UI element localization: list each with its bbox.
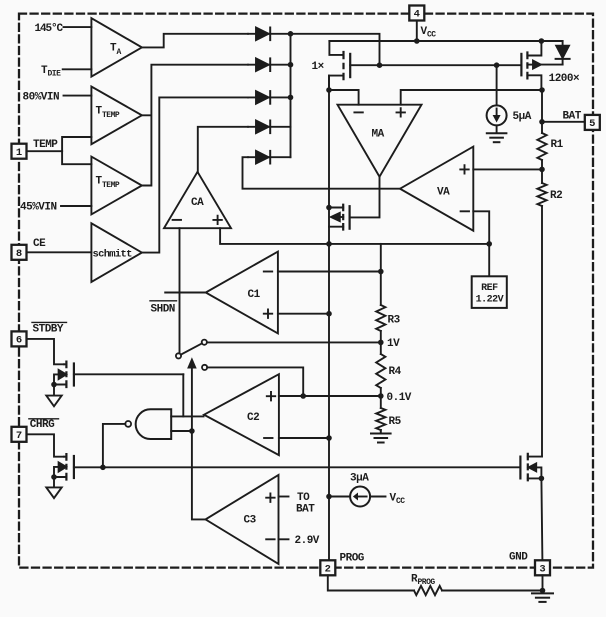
node MA minus 1x — [326, 87, 332, 93]
diode D3 — [248, 91, 291, 104]
svg-text:C2: C2 — [247, 412, 259, 424]
svg-text:45%VIN: 45%VIN — [20, 202, 57, 214]
svg-text:145°C: 145°C — [35, 23, 64, 35]
svg-text:1200×: 1200× — [549, 73, 580, 85]
svg-text:MA: MA — [372, 129, 385, 141]
wire CHRG gate line — [74, 466, 521, 468]
diode D1 — [248, 28, 291, 41]
pin 5 BAT — [563, 111, 600, 131]
wire NAND output to CHRG gate line — [103, 424, 125, 467]
svg-text:CC: CC — [427, 31, 436, 40]
transistor 1200x PMOS — [521, 41, 580, 90]
svg-text:TEMP: TEMP — [102, 111, 120, 120]
switch selector — [176, 340, 207, 370]
transistor 1x PMOS — [312, 41, 380, 90]
resistor R2 — [537, 183, 562, 206]
node VA plus R1R2 — [539, 167, 545, 173]
node 0.1V tap — [378, 392, 412, 404]
svg-text:TEMP: TEMP — [33, 139, 58, 151]
svg-text:R3: R3 — [388, 315, 401, 327]
svg-text:1: 1 — [16, 147, 22, 159]
wire C1 minus to ladder — [278, 271, 381, 273]
wire R3 to R4 — [380, 331, 382, 354]
node gate bus left — [377, 62, 383, 68]
wire 145C to TA — [64, 26, 92, 28]
node STDBY source bulk — [51, 382, 57, 388]
wire TDIE to TA — [63, 68, 92, 70]
label 145C — [35, 23, 64, 35]
block REF 1.22V — [472, 276, 507, 308]
svg-text:R1: R1 — [551, 139, 564, 151]
svg-text:3: 3 — [539, 563, 545, 575]
svg-text:5µA: 5µA — [513, 111, 532, 123]
svg-text:CHRG: CHRG — [30, 419, 55, 431]
ground STDBY — [46, 387, 61, 406]
svg-text:PROG: PROG — [418, 578, 436, 587]
svg-text:80%VIN: 80%VIN — [23, 92, 60, 104]
transistor CHRG NMOS — [54, 453, 74, 481]
diode body 1200x — [556, 41, 570, 65]
svg-text:CC: CC — [396, 497, 405, 506]
svg-text:R5: R5 — [389, 416, 402, 428]
wire VA plus to R1R2 — [473, 168, 542, 170]
wire MA minus to 1x drain — [329, 90, 359, 105]
svg-text:6: 6 — [16, 335, 22, 347]
transistor STDBY NMOS — [54, 361, 183, 389]
wire ladder top — [380, 244, 382, 305]
label 80%VIN — [23, 92, 60, 104]
node diode bus row2 — [288, 62, 294, 68]
wire TEMP branch to TTEMP1 — [62, 137, 91, 151]
pin 1 TEMP — [12, 139, 59, 159]
wire diode bus to gate bus — [291, 34, 380, 65]
node BAT — [539, 119, 545, 125]
op-amp MA — [338, 105, 422, 177]
node gate bus 5uA tap — [494, 62, 500, 68]
node C1 plus PROG — [326, 311, 332, 317]
svg-text:3µA: 3µA — [350, 473, 369, 485]
wire R4 to R5 — [380, 388, 382, 408]
transistor GND switch NMOS — [520, 453, 542, 482]
comparator C3 — [206, 475, 279, 564]
node 1V tap — [378, 338, 400, 350]
wire source to pin3 — [541, 478, 542, 560]
op-amp CA — [164, 172, 231, 228]
node diode bus row3 — [288, 95, 294, 101]
svg-text:schmitt: schmitt — [93, 249, 133, 261]
node 3uA PROG — [326, 494, 332, 500]
svg-text:0.1V: 0.1V — [387, 392, 412, 404]
node GND junction — [540, 588, 546, 594]
comparator C2 — [204, 374, 279, 455]
current source 3uA — [329, 473, 405, 507]
resistor R1 — [537, 133, 563, 160]
node C1 minus ladder — [378, 269, 384, 275]
wire TA output to D1 — [142, 34, 248, 48]
wire C3 minus stub — [279, 538, 289, 540]
gate NAND — [125, 409, 171, 439]
svg-text:R4: R4 — [389, 366, 402, 378]
pin 6 STDBY — [12, 322, 67, 346]
svg-text:1×: 1× — [312, 61, 325, 73]
svg-text:8: 8 — [16, 248, 22, 260]
wire pin7 to CHRG FET drain — [27, 434, 64, 456]
wire CA output to D4 — [198, 127, 248, 172]
wire 80%VIN to TTEMP1 — [64, 95, 92, 97]
wire R1 to R2 — [541, 160, 543, 183]
svg-text:1V: 1V — [387, 338, 400, 350]
wire VA output to D5 — [243, 157, 401, 189]
svg-text:A: A — [117, 48, 122, 57]
wire STDBY gate drop — [182, 374, 184, 416]
wire BAT to pin5 — [542, 121, 585, 123]
svg-text:PROG: PROG — [340, 553, 365, 565]
svg-text:SHDN: SHDN — [151, 304, 175, 316]
wire pin4 to rail — [416, 21, 418, 42]
svg-text:BAT: BAT — [296, 504, 315, 516]
wire CA plus to ref line — [220, 228, 489, 244]
pin 4 VCC — [409, 6, 424, 21]
ground CHRG — [46, 480, 61, 499]
wire CA minus to SHDN and switch pole — [179, 228, 181, 353]
arrow selector actuator — [187, 357, 197, 368]
resistor R5 — [376, 408, 401, 430]
ground 5uA — [487, 133, 507, 142]
node VCC rail 1200x source — [539, 38, 545, 44]
wire 45%VIN to TTEMP2 — [61, 205, 91, 207]
label TO BAT — [296, 492, 315, 516]
label 45%VIN — [20, 202, 57, 214]
wire TTEMP outputs to D2 — [142, 65, 248, 186]
wire VA minus to ref node — [473, 211, 489, 276]
op-amp VA — [400, 147, 473, 231]
node VCC rail pin4 — [414, 38, 420, 44]
svg-text:TEMP: TEMP — [102, 181, 120, 190]
resistor R3 — [376, 305, 400, 331]
svg-text:GND: GND — [509, 552, 528, 564]
pin 3 GND — [509, 552, 550, 576]
resistor R4 — [376, 354, 401, 388]
wire C1 output SHDN — [165, 292, 206, 294]
comparator C1 — [206, 252, 278, 334]
comparator TTEMP2 — [91, 157, 141, 215]
wire TEMP pin to branch — [27, 150, 63, 152]
svg-text:7: 7 — [16, 430, 22, 442]
wire CE to schmitt — [27, 251, 92, 253]
label TDIE — [41, 65, 61, 79]
wire selector actuator from C3 — [192, 369, 206, 520]
resistor RPROG — [411, 574, 442, 596]
wire switch bottom contact to C2 plus — [207, 367, 303, 396]
node diode bus row1 — [288, 31, 294, 37]
node clamp drain PROG bus — [326, 205, 332, 211]
svg-text:R2: R2 — [550, 190, 562, 202]
svg-text:STDBY: STDBY — [33, 324, 64, 336]
diode D4 — [248, 121, 291, 134]
node NAND input2 — [189, 428, 195, 434]
wire schmitt output to D3 — [142, 97, 248, 252]
node switch branch C2 plus — [300, 393, 306, 399]
svg-text:1.22V: 1.22V — [476, 295, 504, 306]
label 2.9V — [295, 535, 320, 547]
pin 8 CE — [12, 238, 47, 260]
node NAND output join — [100, 465, 106, 471]
wire gate bus — [380, 64, 522, 66]
wire 1200x drain down — [541, 90, 543, 133]
wire C2 minus to PROG bus — [279, 437, 329, 439]
wire NAND input1 from C2 output — [171, 415, 203, 417]
wire TEMP branch to TTEMP2 — [62, 151, 91, 164]
wire pin6 to STDBY FET drain — [27, 339, 64, 364]
node C2 minus PROG — [326, 435, 332, 441]
pin 2 PROG — [320, 553, 365, 576]
label VCC top — [421, 26, 437, 40]
svg-text:C3: C3 — [244, 515, 257, 527]
transistor clamp NMOS — [329, 204, 350, 231]
svg-text:4: 4 — [414, 9, 420, 21]
wire 1V to switch top contact — [207, 341, 381, 343]
wire PROG bus — [328, 76, 330, 561]
svg-text:REF: REF — [481, 283, 498, 294]
pin 7 CHRG — [12, 419, 59, 442]
ground GND pin — [532, 593, 553, 602]
diode D2 — [248, 58, 291, 71]
comparator schmitt — [91, 223, 141, 282]
node CHRG source bulk — [51, 474, 57, 480]
svg-text:C1: C1 — [248, 289, 261, 301]
svg-text:CA: CA — [191, 197, 204, 209]
svg-text:TO: TO — [297, 492, 310, 504]
node GND switch source — [539, 476, 545, 482]
node MA plus 1200x — [539, 87, 545, 93]
wire diode cathode bus — [290, 34, 292, 157]
wire NAND input2 from actuator — [171, 430, 192, 432]
wire VCC rail — [329, 40, 562, 42]
wire C3 plus stub — [279, 496, 289, 498]
diode D5 — [248, 151, 291, 164]
current source 5uA — [487, 65, 532, 132]
wire C1 plus to PROG bus — [278, 313, 329, 315]
comparator TA — [91, 18, 141, 76]
wire MA plus to 1200x drain — [401, 90, 542, 105]
svg-text:VA: VA — [437, 187, 450, 199]
svg-text:CE: CE — [33, 238, 46, 250]
label SHDN — [150, 301, 177, 316]
node ref 1.22V — [486, 241, 492, 247]
wire C2 plus to 0.1V — [279, 395, 381, 397]
svg-text:2: 2 — [325, 563, 331, 575]
svg-text:BAT: BAT — [563, 111, 582, 123]
svg-text:2.9V: 2.9V — [295, 535, 320, 547]
wire MA output to clamp gate — [351, 177, 380, 218]
ground R5 — [371, 430, 391, 443]
wire R2 down right bus — [541, 206, 543, 457]
svg-text:5: 5 — [589, 118, 595, 130]
wire RPROG loop — [328, 575, 543, 590]
node ref line PROG bus crossing — [326, 241, 332, 247]
svg-text:DIE: DIE — [48, 70, 62, 79]
comparator TTEMP1 — [91, 87, 141, 145]
